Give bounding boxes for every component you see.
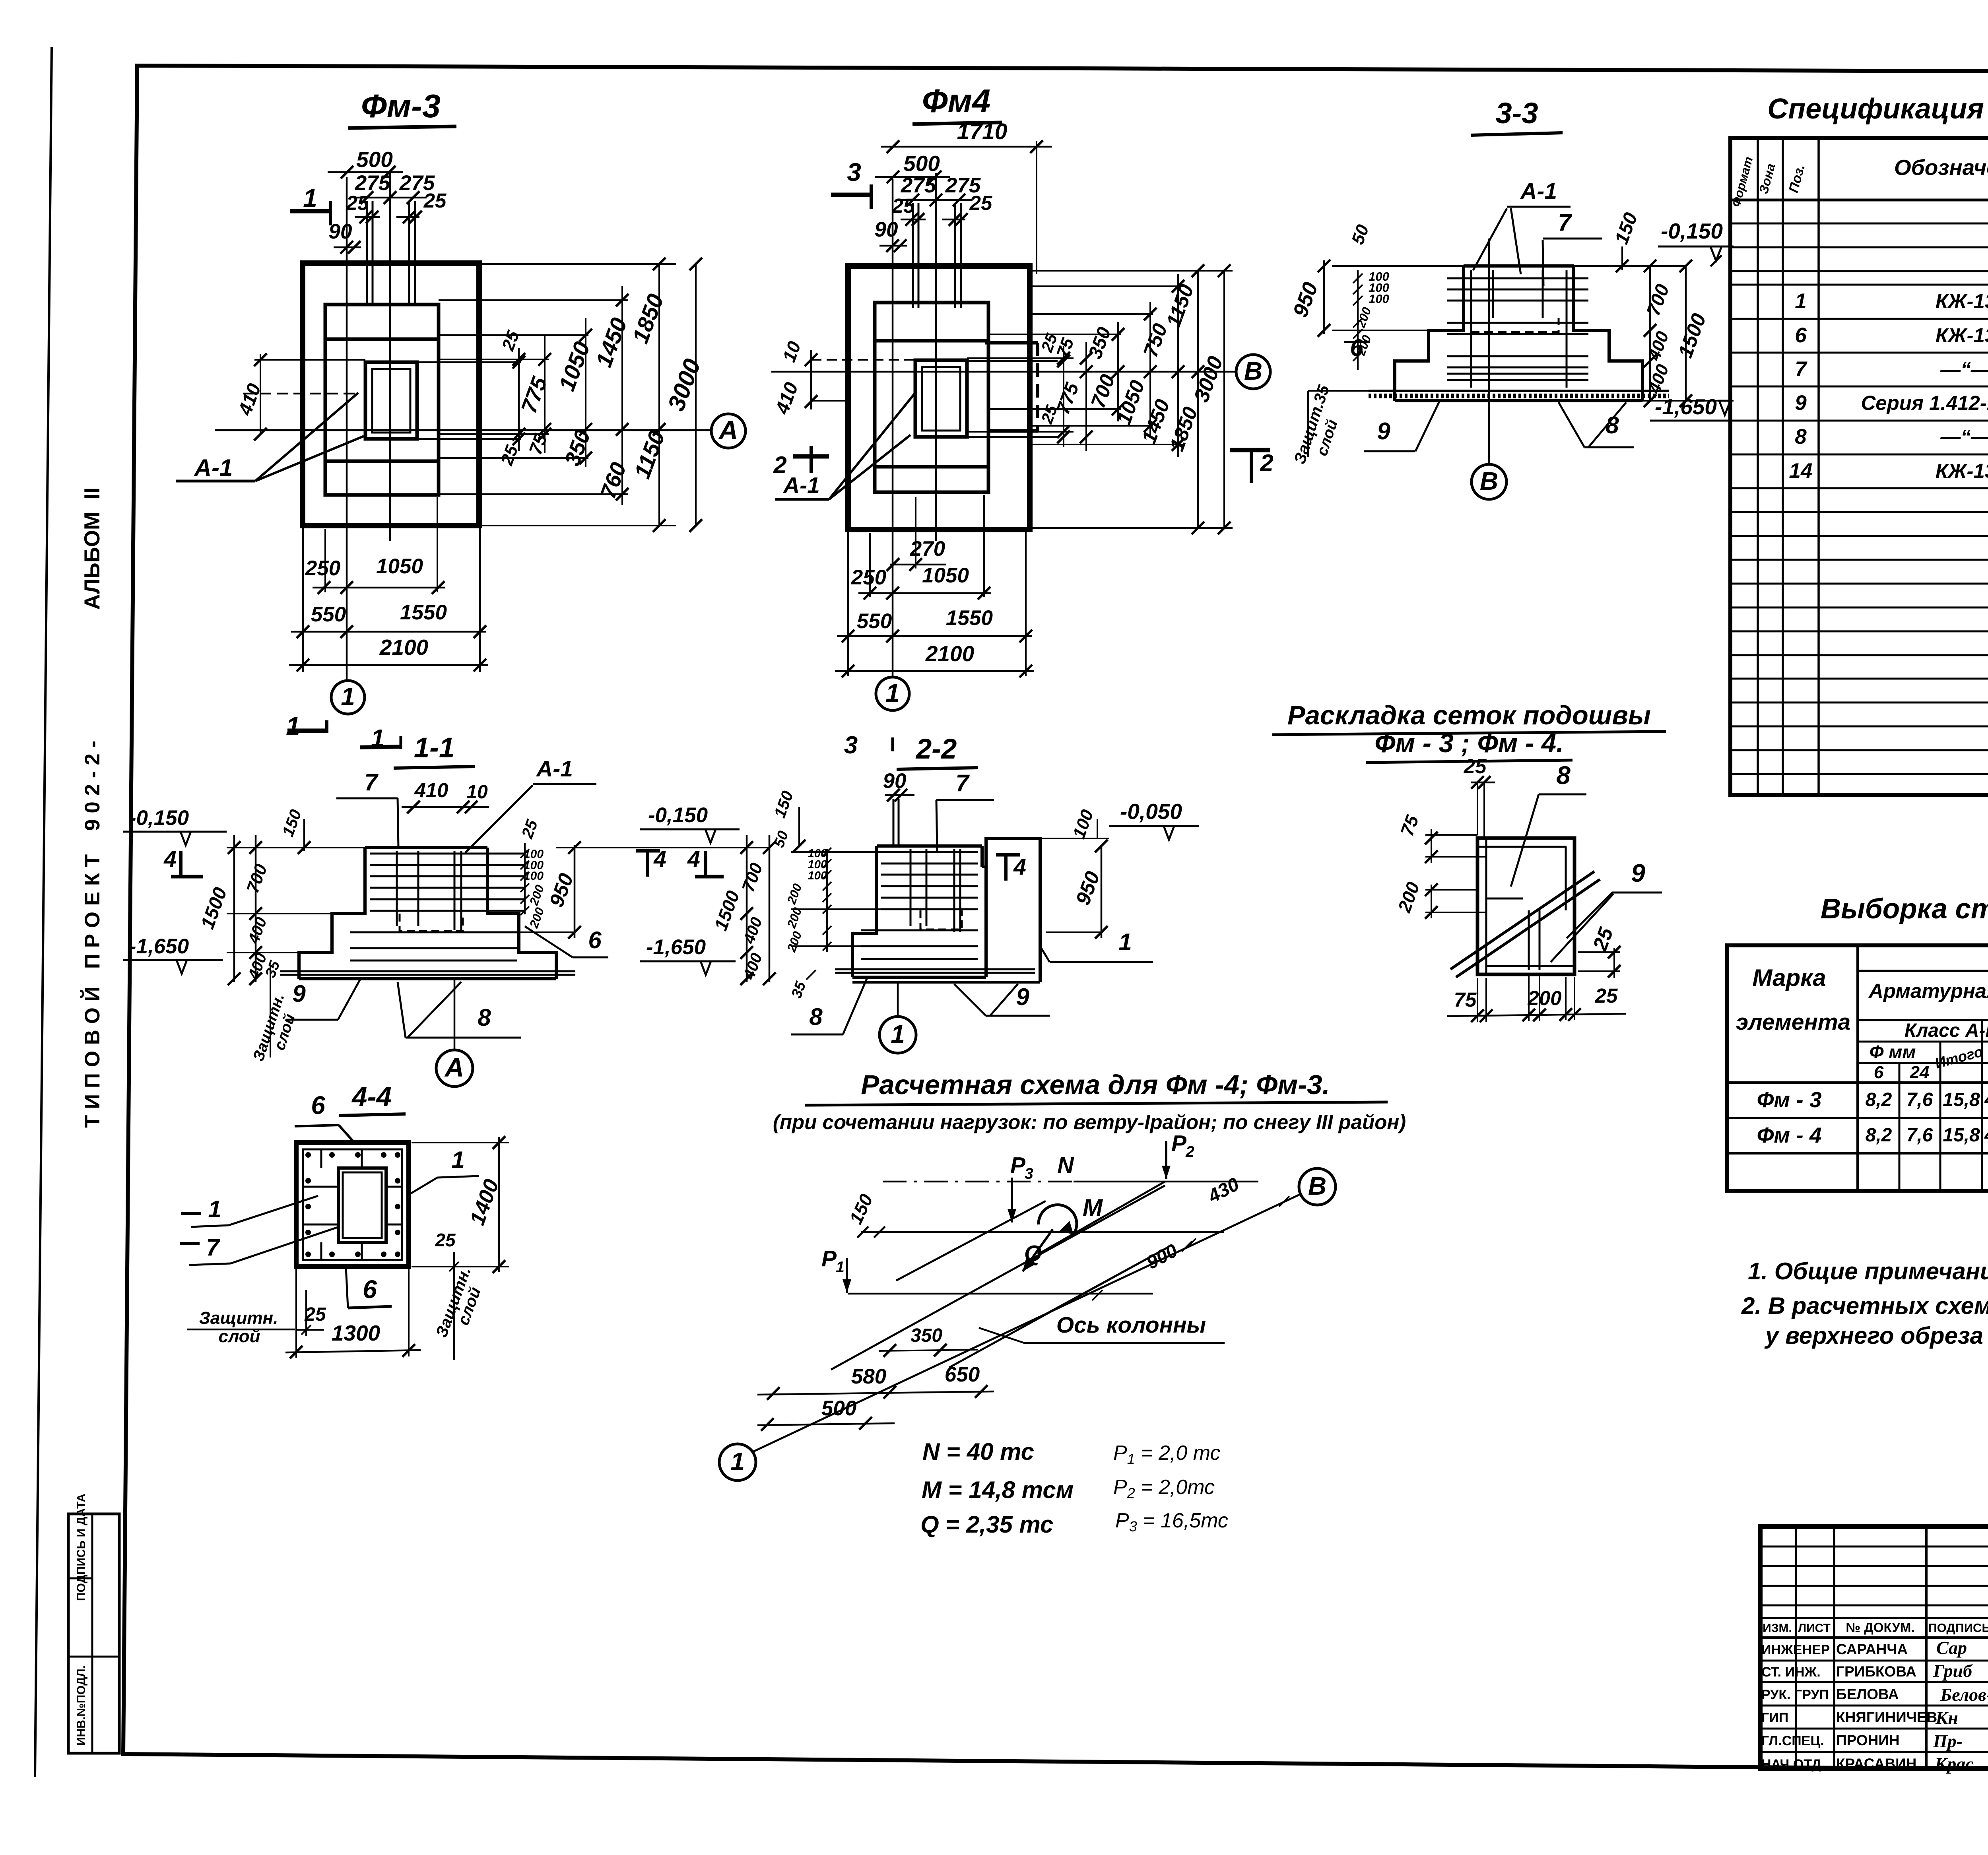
svg-text:1: 1 xyxy=(341,682,355,711)
plan Фм-3: vertical axis line (axis 1) xyxy=(346,177,348,681)
svg-text:элемента: элемента xyxy=(1736,1009,1851,1035)
section 3-3: right dims 700 400 400 1500 xyxy=(1649,266,1651,402)
svg-text:АЛЬБОМ II: АЛЬБОМ II xyxy=(80,487,104,610)
svg-text:ИНЖЕНЕР: ИНЖЕНЕР xyxy=(1761,1642,1830,1657)
fold mark dashes left edge xyxy=(181,1212,201,1215)
svg-text:25: 25 xyxy=(423,189,447,212)
section 3-3: stepped foundation outline xyxy=(1395,266,1464,401)
svg-text:650: 650 xyxy=(945,1363,980,1386)
svg-text:3-3: 3-3 xyxy=(1496,97,1538,130)
section 2-2: vertical bars xyxy=(910,849,912,926)
steel table: Марка элемента column xyxy=(1856,945,1859,1191)
svg-text:Т И П О В О Й П Р О Е К Т: Т И П О В О Й П Р О Е К Т 9 0 2 - 2 - xyxy=(80,741,104,1128)
svg-text:M = 14,8 тсм: M = 14,8 тсм xyxy=(922,1477,1074,1503)
section 3-3: vertical frame bars xyxy=(1470,270,1472,388)
svg-text:Класс А-I: Класс А-I xyxy=(1905,1020,1988,1041)
section 4-4: column cross-section outer xyxy=(296,1143,409,1267)
section 1-1: bottom slab lines with mesh xyxy=(280,970,575,972)
svg-text:1710: 1710 xyxy=(957,119,1008,144)
svg-text:200: 200 xyxy=(1527,987,1561,1009)
svg-text:1: 1 xyxy=(730,1447,745,1476)
plan Фм-3: anchor bar double lines left xyxy=(366,201,368,306)
svg-text:ЛИСТ: ЛИСТ xyxy=(1798,1622,1831,1635)
svg-text:А-1: А-1 xyxy=(536,756,573,782)
svg-text:4: 4 xyxy=(163,846,177,872)
svg-text:550: 550 xyxy=(311,603,346,626)
plan Фм-3: column glass inner xyxy=(372,369,410,433)
svg-text:90: 90 xyxy=(329,220,352,243)
plan Фм-3: step inner horizontal edges xyxy=(325,338,439,341)
svg-text:1: 1 xyxy=(836,1259,845,1276)
svg-text:8: 8 xyxy=(478,1004,491,1031)
axis circle 1 (Фм4) xyxy=(876,677,909,710)
svg-text:500: 500 xyxy=(356,147,393,172)
steel table: data row Фм-3 xyxy=(1727,1081,1988,1084)
svg-text:100: 100 xyxy=(808,869,827,882)
specification table outer border xyxy=(1730,138,1988,795)
steel table: empty bottom row line xyxy=(1727,1152,1988,1155)
svg-text:N: N xyxy=(1057,1153,1074,1178)
specification table row lines xyxy=(1730,199,1988,201)
section 1-1: horizontal mesh bars xyxy=(370,853,525,855)
svg-text:1: 1 xyxy=(885,679,900,707)
svg-text:25: 25 xyxy=(435,1230,456,1250)
svg-text:Ось колонны: Ось колонны xyxy=(1056,1312,1206,1338)
svg-text:25: 25 xyxy=(304,1304,326,1325)
plan Фм4: outer footing outline xyxy=(848,266,1030,530)
svg-text:ИЗМ.: ИЗМ. xyxy=(1763,1622,1792,1635)
svg-text:Ф мм: Ф мм xyxy=(1870,1042,1916,1062)
svg-text:6: 6 xyxy=(311,1091,325,1120)
svg-text:1: 1 xyxy=(286,712,300,740)
svg-text:ГРИБКОВА: ГРИБКОВА xyxy=(1836,1663,1916,1680)
axis circle 1 (below 2-2) xyxy=(879,1017,916,1053)
svg-text:2-2: 2-2 xyxy=(915,733,957,765)
plan Фм4: horizontal axis B line xyxy=(771,371,1236,373)
svg-text:—“—: —“— xyxy=(1940,358,1988,380)
svg-text:БЕЛОВА: БЕЛОВА xyxy=(1836,1686,1899,1702)
axis circle А (below 1-1) xyxy=(436,1050,473,1087)
svg-text:1550: 1550 xyxy=(946,606,993,630)
plan Фм-3: outer footing outline xyxy=(303,263,479,526)
title block left grid columns xyxy=(1795,1527,1797,1768)
title block header row Изм Лист Ndokum Подпись Дата xyxy=(1760,1617,1988,1619)
svg-text:100: 100 xyxy=(1369,292,1389,306)
plan Фм4: anchor bar double lines xyxy=(912,203,914,308)
section 3-3: anchor dashed outline xyxy=(1471,318,1559,332)
axis circle В (scheme) xyxy=(1299,1168,1336,1205)
svg-text:Пр-: Пр- xyxy=(1933,1731,1963,1751)
svg-text:Фм - 3 ; Фм - 4.: Фм - 3 ; Фм - 4. xyxy=(1375,728,1564,758)
title block outer box xyxy=(1760,1527,1988,1768)
svg-text:1550: 1550 xyxy=(400,601,447,624)
plan Фм-3: right dim chain 1050/350 xyxy=(439,334,588,336)
svg-text:6: 6 xyxy=(1795,324,1807,347)
svg-text:КЖ-13: КЖ-13 xyxy=(1936,324,1988,347)
steel table: Арматурные изделия header xyxy=(1858,970,1988,972)
plan Фм-3: right dim chain 1450/760 xyxy=(439,299,628,301)
svg-text:8: 8 xyxy=(1795,425,1807,448)
svg-text:8: 8 xyxy=(1556,761,1571,790)
calc scheme: diagonal grid lines xyxy=(896,1201,1046,1281)
svg-text:3: 3 xyxy=(847,158,861,186)
svg-text:9: 9 xyxy=(292,980,306,1007)
plan Фм-3: middle step outline xyxy=(325,305,439,495)
svg-text:Фм-3: Фм-3 xyxy=(361,87,441,124)
svg-text:7: 7 xyxy=(1558,209,1572,236)
svg-text:4: 4 xyxy=(687,846,700,872)
axis circle В xyxy=(1236,355,1270,389)
svg-text:N = 40 тс: N = 40 тс xyxy=(922,1438,1034,1465)
section 1-1: vertical bars xyxy=(396,851,398,926)
svg-text:А: А xyxy=(444,1053,464,1083)
svg-text:7: 7 xyxy=(955,770,970,796)
svg-text:Гриб: Гриб xyxy=(1933,1661,1973,1681)
plan Фм-3: left dim 410 leader xyxy=(254,359,365,361)
calc scheme: second horizontal line xyxy=(861,1231,1224,1233)
svg-text:РУК. ГРУП: РУК. ГРУП xyxy=(1761,1687,1829,1702)
svg-text:-0,150: -0,150 xyxy=(648,803,708,827)
svg-text:ГЛ.СПЕЦ.: ГЛ.СПЕЦ. xyxy=(1761,1733,1824,1748)
svg-text:Сар: Сар xyxy=(1936,1638,1967,1658)
plan Фм-3: column glass outer xyxy=(365,362,417,439)
bottom-left vertical stamp box (Инв.N подл / Подпись и дата) xyxy=(68,1514,119,1753)
specification table column lines xyxy=(1757,138,1759,795)
svg-text:90: 90 xyxy=(883,769,907,793)
calc scheme: third horizontal line xyxy=(848,1293,1153,1295)
svg-text:-0,150: -0,150 xyxy=(1661,219,1723,243)
section 1-1: axis line down to circle А xyxy=(454,979,456,1050)
svg-text:Арматурная сталь 5781-75: Арматурная сталь 5781-75 xyxy=(1868,980,1988,1002)
svg-text:4-4: 4-4 xyxy=(351,1081,392,1112)
svg-text:А: А xyxy=(718,415,738,445)
section 3-3: horizontal mesh bars in column xyxy=(1447,277,1588,279)
svg-text:7,6: 7,6 xyxy=(1906,1089,1933,1110)
axis circle 1 (scheme) xyxy=(719,1444,756,1481)
section 3-3: bottom slab with mesh band xyxy=(1395,399,1642,402)
steel table: Арматурная сталь 5781-75 band xyxy=(1858,1019,1988,1021)
svg-text:P: P xyxy=(1171,1131,1187,1156)
svg-text:15,8: 15,8 xyxy=(1943,1089,1980,1110)
section 3-3: lower mesh bars xyxy=(1447,373,1588,375)
svg-text:41,8: 41,8 xyxy=(1984,1089,1988,1110)
section 1-1: left dim chain 700 400 400 xyxy=(255,835,257,982)
calc scheme: top dash-dot line with P3 N xyxy=(883,1181,1074,1183)
axis circle 1 (Фм-3) xyxy=(331,681,365,714)
svg-text:1: 1 xyxy=(1795,289,1806,313)
section 1-1: extension line top-left xyxy=(227,847,365,848)
svg-text:350: 350 xyxy=(911,1325,942,1346)
svg-text:у верхнего обреза фундамент: у верхнего обреза фундаментов. xyxy=(1764,1322,1988,1349)
svg-text:Белов-: Белов- xyxy=(1940,1684,1988,1705)
svg-text:25: 25 xyxy=(892,194,915,217)
steel table: data row Фм-4 xyxy=(1727,1117,1988,1119)
svg-text:2: 2 xyxy=(773,452,786,478)
svg-text:1050: 1050 xyxy=(922,564,969,587)
axis circle В (section 3-3) xyxy=(1472,464,1507,499)
svg-text:Раскладка сеток подошвы: Раскладка сеток подошвы xyxy=(1287,700,1651,730)
svg-text:А-1: А-1 xyxy=(782,473,820,498)
svg-text:90: 90 xyxy=(875,218,898,241)
mesh layout: mesh 9 vertical bars xyxy=(1528,910,1530,970)
svg-text:4: 4 xyxy=(1013,854,1026,880)
plan Фм4: column center vertical line xyxy=(935,173,937,541)
section 1-1: stepped outline left half xyxy=(299,848,365,979)
svg-text:7,6: 7,6 xyxy=(1906,1125,1933,1146)
section 1-1: right dim 950 xyxy=(574,845,576,938)
svg-text:Серия 1.412-1 Вып. II: Серия 1.412-1 Вып. II xyxy=(1861,392,1988,414)
section 2-2: right dim 950 xyxy=(1101,845,1103,938)
svg-text:1: 1 xyxy=(303,184,317,212)
svg-text:9: 9 xyxy=(1016,984,1029,1010)
section 2-2: horizontal mesh bars xyxy=(881,851,978,853)
svg-text:СТ. ИНЖ.: СТ. ИНЖ. xyxy=(1761,1665,1821,1680)
plan Фм-3: right dim chain 25/775/75/25 xyxy=(439,359,549,360)
mesh layout: mesh plan square outer xyxy=(1477,838,1574,974)
svg-text:P: P xyxy=(1010,1153,1026,1178)
svg-text:-1,650: -1,650 xyxy=(129,935,189,958)
title block upper empty revision rows xyxy=(1760,1546,1988,1548)
svg-text:ПОДПИСЬ И ДАТА: ПОДПИСЬ И ДАТА xyxy=(75,1494,88,1601)
plan Фм4: step inner horizontal edges xyxy=(875,339,988,343)
svg-text:410: 410 xyxy=(414,779,448,801)
svg-text:2: 2 xyxy=(1185,1143,1194,1160)
svg-text:(при сочетании нагрузок: по ве: (при сочетании нагрузок: по ветру-Iрайон… xyxy=(773,1111,1406,1133)
svg-text:-1,650: -1,650 xyxy=(1655,394,1717,419)
section 3-3: vertical axis line down to circle B xyxy=(1488,239,1490,464)
svg-text:550: 550 xyxy=(857,609,892,633)
svg-text:2100: 2100 xyxy=(379,635,429,660)
svg-text:M: M xyxy=(1083,1194,1103,1221)
svg-text:В: В xyxy=(1308,1172,1326,1200)
calc scheme: moment M arc xyxy=(1039,1205,1077,1234)
section 2-2: anchor dashed box xyxy=(920,910,962,929)
svg-text:-0,050: -0,050 xyxy=(1120,799,1182,824)
svg-text:Выборка стали на один элемент,: Выборка стали на один элемент, кГ xyxy=(1821,893,1988,925)
svg-text:3: 3 xyxy=(1025,1165,1033,1182)
svg-text:9: 9 xyxy=(1377,418,1390,444)
svg-text:7: 7 xyxy=(206,1234,220,1261)
svg-text:№ ДОКУМ.: № ДОКУМ. xyxy=(1846,1620,1914,1635)
svg-text:15,8: 15,8 xyxy=(1943,1125,1980,1146)
svg-text:ИНВ.№ПОДЛ.: ИНВ.№ПОДЛ. xyxy=(75,1665,88,1746)
plan Фм4: vertical axis line (axis 1) xyxy=(892,179,894,676)
steel table outer border xyxy=(1727,945,1988,1191)
steel table: diameter row xyxy=(1858,1062,1988,1064)
svg-text:-0,150: -0,150 xyxy=(129,806,189,830)
plan Фм4: step extension (asymmetric part) xyxy=(985,341,1038,345)
section 4-4: stirrup cross lines xyxy=(303,1186,338,1188)
section 2-2: axis line down to circle 1 xyxy=(897,982,899,1017)
section 4-4: glass opening double rect xyxy=(338,1168,386,1242)
svg-text:1: 1 xyxy=(1118,929,1132,955)
mesh layout: diagonal mesh band xyxy=(1450,871,1594,969)
plan Фм-3: horizontal axis А line to circle xyxy=(215,429,711,431)
svg-text:А-1: А-1 xyxy=(1520,179,1557,204)
plan Фм4: right dim chain 1850 3000 xyxy=(1030,270,1233,272)
svg-text:Спецификация элементов монолит: Спецификация элементов монолитной констр… xyxy=(1767,93,1988,125)
svg-text:1: 1 xyxy=(891,1020,905,1048)
section 2-2: stepped outline xyxy=(852,846,877,977)
svg-text:-1,650: -1,650 xyxy=(646,935,706,959)
plan Фм4: column glass inner xyxy=(922,367,960,431)
svg-text:10: 10 xyxy=(466,782,488,803)
svg-text:250: 250 xyxy=(851,566,886,589)
section 4-4: inner offset rect (stirrup) xyxy=(303,1149,402,1260)
svg-text:6: 6 xyxy=(1350,334,1363,361)
svg-text:ГИП: ГИП xyxy=(1761,1710,1788,1725)
svg-text:580: 580 xyxy=(851,1365,886,1388)
svg-text:9: 9 xyxy=(1631,859,1645,887)
svg-text:8,2: 8,2 xyxy=(1866,1125,1892,1146)
svg-text:Q = 2,35 тс: Q = 2,35 тс xyxy=(920,1511,1053,1538)
plan Фм4: middle step outline xyxy=(875,303,988,492)
plan Фм-3: dashed leader line xyxy=(243,393,360,395)
section 2-2: bottom slab and mesh lines xyxy=(852,976,986,979)
steel table: class headers xyxy=(1858,1041,1988,1043)
svg-text:ПРОНИН: ПРОНИН xyxy=(1836,1732,1900,1748)
svg-text:7: 7 xyxy=(1795,357,1807,381)
svg-text:14: 14 xyxy=(1789,459,1813,483)
svg-text:1: 1 xyxy=(451,1147,464,1173)
svg-text:250: 250 xyxy=(305,557,340,580)
calc scheme: main axis line 1-B xyxy=(753,1195,1299,1452)
svg-text:Расчетная схема для Фм -4;: Расчетная схема для Фм -4; Фм-3. xyxy=(861,1069,1330,1100)
svg-text:КЖ-13: КЖ-13 xyxy=(1936,460,1988,482)
svg-text:3: 3 xyxy=(844,732,858,759)
svg-text:7: 7 xyxy=(364,769,379,796)
svg-text:САРАНЧА: САРАНЧА xyxy=(1836,1641,1908,1657)
section 1-1: stepped outline right half xyxy=(487,848,556,979)
svg-text:500: 500 xyxy=(903,151,940,176)
svg-text:Фм4: Фм4 xyxy=(922,82,990,119)
svg-text:41,8: 41,8 xyxy=(1984,1125,1988,1146)
svg-text:Крас: Крас xyxy=(1934,1754,1974,1774)
svg-text:2100: 2100 xyxy=(925,641,975,666)
svg-text:Кн: Кн xyxy=(1935,1708,1958,1728)
plan Фм-3: column center vertical line xyxy=(389,171,391,541)
svg-text:Фм - 3: Фм - 3 xyxy=(1757,1087,1821,1112)
plan Фм4: column glass outer xyxy=(915,360,967,437)
svg-text:8,2: 8,2 xyxy=(1866,1089,1892,1110)
svg-text:В: В xyxy=(1244,357,1262,385)
svg-text:1: 1 xyxy=(208,1196,221,1222)
plan Фм-3: anchor bar double lines right xyxy=(408,201,410,306)
svg-text:2: 2 xyxy=(1260,450,1273,476)
section 1-1: right dim chain 1500 700 400 400 xyxy=(746,835,748,982)
svg-text:6: 6 xyxy=(588,927,602,953)
svg-text:25: 25 xyxy=(1595,984,1618,1007)
svg-text:6: 6 xyxy=(1874,1063,1884,1082)
svg-text:Защитн.: Защитн. xyxy=(199,1308,278,1328)
svg-text:25: 25 xyxy=(969,192,992,214)
svg-text:1050: 1050 xyxy=(376,555,423,578)
sheet outer thin margin line (left) xyxy=(35,47,52,1777)
plan Фм4: right dim chain 25/75 350 750 1150 xyxy=(967,357,1074,359)
svg-text:Фм - 4: Фм - 4 xyxy=(1757,1123,1821,1147)
svg-text:Марка: Марка xyxy=(1752,964,1826,991)
svg-text:1300: 1300 xyxy=(332,1321,381,1345)
svg-text:24: 24 xyxy=(1910,1063,1930,1082)
svg-text:75: 75 xyxy=(1454,988,1477,1011)
svg-text:9: 9 xyxy=(1795,391,1807,415)
svg-text:6: 6 xyxy=(363,1275,377,1304)
svg-text:1-1: 1-1 xyxy=(414,732,455,764)
svg-text:ПОДПИСЬ: ПОДПИСЬ xyxy=(1928,1621,1988,1635)
plan Фм-3: right dim chain 3000 xyxy=(695,264,697,526)
svg-text:8: 8 xyxy=(809,1003,823,1030)
svg-text:КНЯГИНИЧЕВ: КНЯГИНИЧЕВ xyxy=(1836,1709,1937,1725)
section 1-1: anchor dashed box xyxy=(400,914,463,931)
svg-text:P: P xyxy=(821,1246,837,1271)
svg-text:—“—: —“— xyxy=(1940,425,1988,448)
section 1-1: left dim chain 1500 xyxy=(233,835,235,982)
svg-text:В: В xyxy=(1480,467,1498,495)
steel table: sub diameter values 6 24 10 12 10 12 xyxy=(1858,1082,1988,1084)
mesh layout: mesh inner offset lines xyxy=(1485,838,1487,974)
svg-text:100: 100 xyxy=(524,869,544,883)
section 4-4: rebar dots xyxy=(305,1152,311,1158)
svg-text:1. Общие примечания см. на лис: 1. Общие примечания см. на листе КЖ-6. xyxy=(1748,1258,1988,1285)
svg-text:Обозначение: Обозначение xyxy=(1894,155,1988,180)
svg-text:КЖ-13: КЖ-13 xyxy=(1936,290,1988,312)
svg-text:НАЧ.ОТД: НАЧ.ОТД xyxy=(1761,1757,1821,1772)
plan Фм-3: right dim chain 775/75 xyxy=(544,336,546,453)
axis circle А xyxy=(711,414,745,448)
plan Фм-3: right dim chain 1850/1150 xyxy=(479,263,676,265)
svg-text:25: 25 xyxy=(346,192,369,214)
svg-text:500: 500 xyxy=(821,1397,856,1420)
svg-text:25: 25 xyxy=(1464,755,1487,778)
section 2-2: right tall block xyxy=(986,838,1040,982)
svg-text:А-1: А-1 xyxy=(194,454,233,481)
svg-text:2. В расчетных схемах даны н: 2. В расчетных схемах даны нормативные н… xyxy=(1741,1292,1988,1319)
svg-text:КРАСАВИН: КРАСАВИН xyxy=(1836,1756,1916,1772)
section 3-3: top surface extension lines xyxy=(1355,265,1464,267)
